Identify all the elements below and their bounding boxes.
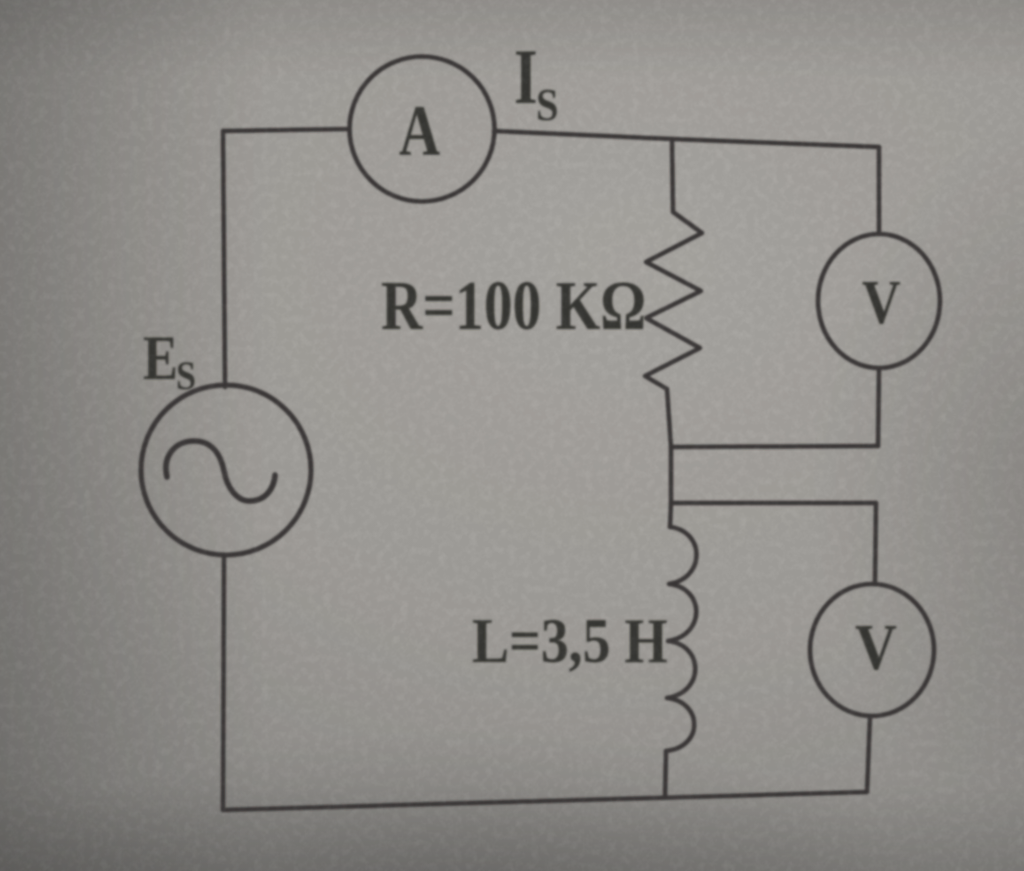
source ES circle: [141, 385, 311, 555]
wire top-right horizontal (ammeter to top-right corner): [494, 131, 879, 147]
wire inductor bottom to bottom wire: [665, 751, 666, 797]
wire left vertical (source ES down to bottom-left corner): [223, 555, 224, 810]
wire bottom horizontal: [223, 792, 867, 810]
source ES sine symbol: [166, 441, 275, 501]
voltmeter V1 circle: [818, 234, 940, 368]
wire top-left horizontal (left corner to ammeter): [223, 129, 349, 131]
wire horizontal tap lower (middle branch to bottom voltmeter branch): [671, 501, 876, 506]
voltmeter V2 circle: [810, 584, 934, 716]
wire middle vertical (resistor bottom through taps to inductor top): [667, 389, 671, 527]
resistor R zigzag: [645, 212, 702, 389]
wire voltmeter V1 bottom to upper tap: [878, 368, 879, 446]
wire left vertical (top corner down to source ES): [223, 131, 225, 387]
inductor L coil: [666, 527, 697, 751]
wire right vertical (top corner to voltmeter V1): [877, 147, 882, 234]
wire middle vertical (top junction down to resistor): [672, 139, 673, 212]
wire horizontal tap upper (middle branch to top voltmeter branch): [671, 446, 878, 447]
wire voltmeter V2 bottom to bottom-right corner: [867, 716, 870, 792]
ammeter A1 circle: [350, 57, 495, 202]
wire lower tap down to voltmeter V2: [875, 503, 876, 584]
